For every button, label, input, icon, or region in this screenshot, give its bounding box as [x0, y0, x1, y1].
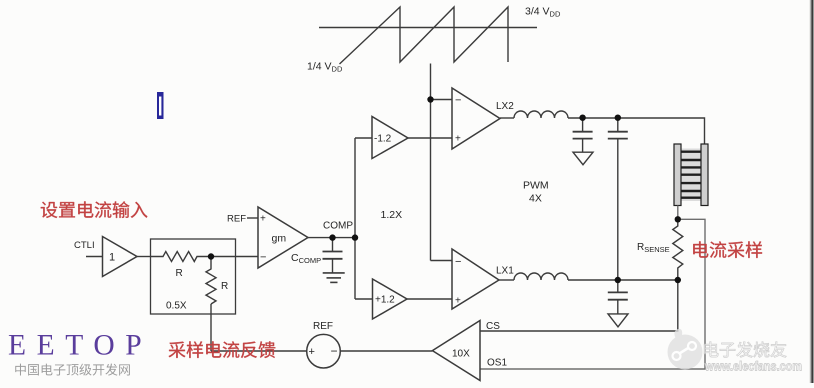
motor rung — [681, 182, 701, 184]
svg-text:+1.2: +1.2 — [375, 295, 395, 306]
junction dot — [615, 277, 621, 283]
ground signal — [323, 272, 345, 274]
wire LX1 output — [499, 279, 514, 281]
motor rung — [681, 196, 701, 198]
cursor artifact — [157, 92, 164, 119]
svg-text:−: − — [455, 95, 461, 107]
wire COMP to +1.2 input — [355, 298, 373, 300]
svg-text:gm: gm — [272, 233, 287, 245]
svg-text:−: − — [331, 344, 338, 358]
wire LX2 to motor — [568, 118, 705, 144]
wire divider output to gm inverting input — [211, 256, 258, 258]
svg-text:+: + — [260, 214, 266, 225]
svg-text:LX1: LX1 — [496, 266, 514, 277]
wire +1.2 output to lower PWM + input — [407, 298, 452, 300]
EETOP tagline zhongguo dianzi dingji kaifa wang — [15, 364, 130, 376]
wire gm output to COMP node — [308, 237, 355, 239]
svg-text:1.2X: 1.2X — [381, 209, 403, 221]
sawtooth waveform — [340, 7, 509, 64]
oscillator reference line — [319, 27, 537, 29]
op-amp PWM lower — [452, 249, 499, 309]
svg-text:1/4 VDD: 1/4 VDD — [307, 61, 343, 74]
wire sawtooth to PWM comparators — [430, 64, 432, 261]
red label she zhi dian liu shu ru (set current input) — [41, 201, 148, 218]
motor rail left — [674, 144, 681, 206]
wire summer output to feedback — [211, 350, 307, 352]
svg-text:OS1: OS1 — [487, 358, 507, 369]
capacitor CCOMP — [332, 238, 334, 252]
svg-text:PWM: PWM — [523, 180, 549, 192]
motor load interior — [681, 149, 701, 202]
motor rung — [681, 166, 701, 168]
svg-text:EETOP: EETOP — [8, 330, 152, 362]
ground chassis triangle — [573, 152, 593, 165]
wire COMP vertical bus — [354, 138, 356, 299]
svg-text:-1.2: -1.2 — [374, 134, 392, 145]
svg-text:−: − — [455, 256, 461, 268]
wire phase cap down to LX1 line — [617, 139, 619, 280]
capacitor LX1 filter — [617, 280, 619, 292]
junction dot — [352, 234, 358, 240]
motor rung — [681, 159, 701, 161]
divider block box 0.5X — [151, 239, 236, 314]
svg-text:REF: REF — [227, 214, 246, 225]
wire LX2 output — [500, 117, 514, 119]
red label cai yang dian liu fan kui (sampled current feedback) — [169, 341, 276, 358]
svg-text:R: R — [176, 268, 183, 279]
wire to upper PWM inverting input — [431, 99, 453, 101]
junction dot — [675, 216, 681, 222]
svg-text:1: 1 — [109, 252, 115, 264]
summing junction — [307, 334, 341, 368]
svg-text:RSENSE: RSENSE — [637, 242, 670, 254]
svg-text:4X: 4X — [529, 193, 542, 205]
wire motor to sense node — [677, 206, 679, 220]
svg-text:CS: CS — [486, 321, 500, 332]
svg-text:0.5X: 0.5X — [166, 301, 187, 312]
watermark logo circle — [668, 335, 703, 370]
svg-text:+: + — [455, 134, 461, 145]
junction dot — [427, 96, 433, 102]
buffer amplifier 1 — [103, 237, 138, 277]
wire 10X output to summer — [340, 350, 432, 352]
wire divider to feedback line — [210, 304, 212, 351]
comparator -1.2 — [372, 117, 408, 159]
wire LX1 to sense node — [568, 279, 678, 281]
junction dot — [615, 115, 621, 121]
svg-text:www.elecfans.com: www.elecfans.com — [704, 360, 802, 374]
svg-text:CTLI: CTLI — [74, 240, 95, 251]
svg-text:COMP: COMP — [323, 221, 353, 232]
svg-text:−: − — [260, 252, 266, 264]
svg-text:10X: 10X — [452, 349, 470, 360]
op-amp gm error amplifier — [258, 207, 308, 268]
inductor LX1 — [514, 273, 568, 280]
ground chassis triangle — [608, 314, 628, 327]
watermark text dianzi fashaoyou — [704, 342, 786, 358]
image right border edge — [811, 0, 813, 383]
wire CTLI input — [86, 256, 103, 258]
motor rail right — [701, 144, 708, 206]
watermark logo pins — [677, 345, 693, 355]
wire -1.2 output to upper PWM + input — [408, 137, 452, 139]
svg-text:+: + — [309, 346, 315, 358]
wire COMP to -1.2 input — [355, 137, 372, 139]
svg-text:CCOMP: CCOMP — [291, 252, 321, 265]
junction dot — [579, 115, 585, 121]
resistor R vertical — [206, 257, 216, 305]
junction dot — [208, 253, 214, 259]
wire to lower PWM inverting input — [431, 260, 453, 262]
svg-text:LX2: LX2 — [496, 101, 514, 112]
svg-text:R: R — [221, 281, 228, 292]
capacitor LX2 filter — [582, 118, 584, 132]
motor rung — [681, 190, 701, 192]
red label dian liu cai yang (current sampling) — [693, 241, 762, 258]
comparator 10X current sense amp — [432, 321, 480, 381]
wire CS from LX1 node — [480, 280, 678, 331]
comparator +1.2 — [373, 279, 408, 319]
junction dot — [329, 234, 335, 240]
junction dot — [675, 277, 681, 283]
wire buffer to divider box — [137, 256, 151, 258]
svg-text:+: + — [455, 296, 461, 307]
wire REF to gm non-inverting input — [247, 217, 258, 219]
motor rung — [681, 150, 701, 152]
resistor RSENSE — [673, 219, 683, 280]
op-amp PWM upper — [452, 88, 500, 149]
svg-text:3/4 VDD: 3/4 VDD — [525, 6, 561, 19]
resistor R horizontal — [151, 252, 212, 262]
capacitor phase (LX2 to LX1) — [617, 118, 619, 132]
wire sense node to OS1 — [480, 219, 705, 369]
svg-text:REF: REF — [313, 321, 333, 332]
inductor LX2 — [514, 111, 568, 118]
motor rung — [681, 173, 701, 175]
